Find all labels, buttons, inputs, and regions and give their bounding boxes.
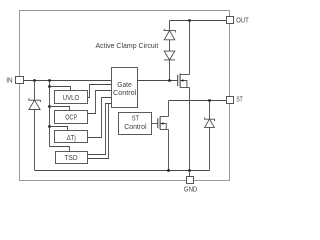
GND rail wire <box>35 170 210 172</box>
wire dTj output to Gate Control <box>88 98 112 138</box>
transistor Q1 (main MOSFET) <box>178 74 190 88</box>
svg-text:ΔTj: ΔTj <box>67 133 77 142</box>
svg-text:Control: Control <box>113 88 137 97</box>
svg-text:TSD: TSD <box>64 153 77 162</box>
block Gate Control U1 <box>112 68 138 108</box>
wire IN to Gate Control <box>24 80 112 82</box>
wire Q1 source down to GND rail <box>189 88 191 171</box>
wire clamp column upper <box>169 21 171 31</box>
zener D1 (active clamp, cathode up) <box>164 29 175 40</box>
wire Z2 cathode from ST wire <box>209 101 211 120</box>
transistor Q2 (status MOSFET) <box>158 117 169 130</box>
node junction clamp to gate <box>168 79 171 82</box>
block TSD <box>56 152 88 164</box>
block OCP <box>55 111 88 124</box>
Q1 body diode arrow <box>181 79 184 82</box>
wire feed to dTj top <box>50 127 68 131</box>
node junction OCP feed <box>48 105 51 108</box>
node junction on IN wire at zener Z1 <box>33 79 36 82</box>
wire Q2 drain up to ST wire <box>168 101 170 117</box>
zener Z2 (ST to GND) <box>205 118 215 128</box>
Q2 body diode arrow <box>161 122 164 125</box>
node junction Q2 source at GND rail <box>167 169 170 172</box>
wire GND rail to GND pin <box>189 171 191 177</box>
wire OCP output to Gate Control <box>88 91 112 114</box>
zener Z1 cathode wire from IN node <box>34 81 36 101</box>
svg-text:UVLO: UVLO <box>63 93 80 102</box>
block ST Control U2 <box>119 113 152 135</box>
pin ST <box>227 97 234 104</box>
wire TSD output 2 <box>88 104 109 159</box>
wire Q1 drain up to OUT <box>189 21 191 75</box>
svg-text:Active Clamp Circuit: Active Clamp Circuit <box>96 41 159 50</box>
diode D2 (active clamp, cathode down) <box>164 51 175 60</box>
svg-text:IN: IN <box>6 75 12 84</box>
node junction on IN wire at supply column <box>48 79 51 82</box>
wire ST Control output to Q2 gate <box>152 123 158 125</box>
wire D2 to gate node <box>169 60 171 81</box>
IC package outline border <box>20 11 230 181</box>
svg-text:OCP: OCP <box>65 113 77 122</box>
pin OUT <box>227 17 234 24</box>
block dTj <box>55 131 88 143</box>
pin IN <box>16 77 24 84</box>
wire Z2 anode down to GND rail <box>209 127 211 170</box>
wire ST net to ST pin <box>169 100 227 102</box>
pin GND <box>187 177 194 184</box>
node junction zener Z2 on ST wire <box>208 99 211 102</box>
wire between D1 and D2 <box>169 40 171 51</box>
zener Z1 anode wire to GND rail <box>34 110 36 171</box>
svg-text:GND: GND <box>184 184 197 193</box>
node junction UVLO feed <box>48 85 51 88</box>
block UVLO <box>55 91 88 104</box>
wire TSD output 1 to Gate Control <box>88 104 112 155</box>
svg-text:Control: Control <box>124 122 147 131</box>
svg-text:ST: ST <box>236 95 243 104</box>
node junction Q1 source at GND rail <box>188 169 191 172</box>
zener Z1 (IN to GND) <box>29 98 41 109</box>
svg-text:OUT: OUT <box>236 16 249 25</box>
wire UVLO output to Gate Control <box>88 85 112 98</box>
wire supply column x=49 <box>49 81 51 147</box>
wire feed to OCP top <box>50 107 70 111</box>
node junction dTj feed <box>48 125 51 128</box>
wire Q2 source down to GND rail <box>168 130 170 171</box>
wire Gate Control output to Q1 gate <box>138 80 178 82</box>
wire feed to TSD top <box>50 147 70 152</box>
node junction Q1 drain to OUT wire <box>188 19 191 22</box>
wire feed to UVLO top <box>50 87 71 91</box>
wire OUT net <box>170 20 227 22</box>
